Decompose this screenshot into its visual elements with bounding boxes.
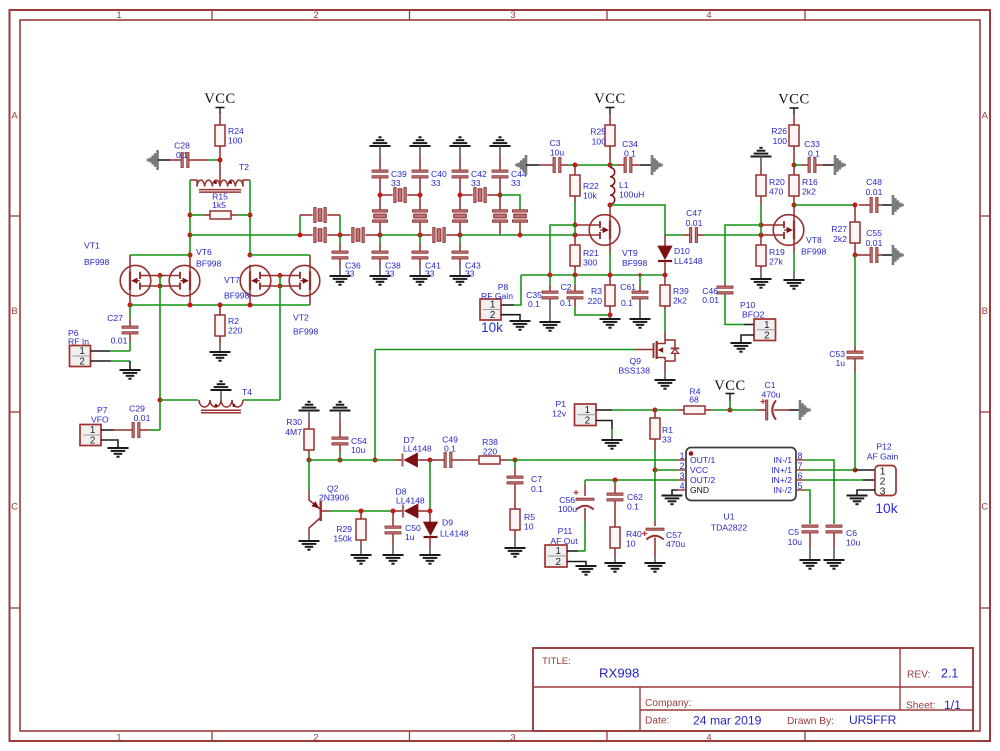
wire (418, 459, 431, 461)
ground (370, 275, 391, 277)
wire (129, 255, 131, 265)
wire (219, 344, 221, 352)
wire (130, 254, 190, 256)
svg-text:P7: P7 (97, 405, 108, 415)
wire (514, 275, 521, 305)
ground (600, 318, 621, 320)
wire (507, 459, 515, 461)
wire (339, 266, 341, 276)
svg-text:C1: C1 (765, 380, 776, 390)
svg-text:BF998: BF998 (84, 257, 110, 267)
wire (501, 304, 514, 306)
svg-text:R30: R30 (286, 417, 302, 427)
wire (654, 470, 656, 521)
wire (308, 411, 310, 421)
wire (878, 204, 882, 206)
wire (664, 261, 666, 275)
wire (380, 234, 420, 236)
wire (609, 146, 611, 161)
wire (190, 214, 204, 216)
resistor R15 (210, 211, 231, 219)
wire (805, 479, 864, 481)
ground (156, 150, 159, 170)
wire (760, 166, 762, 175)
wire (459, 178, 461, 195)
wire (793, 161, 795, 165)
resistor R24 (215, 125, 225, 146)
wire (419, 266, 421, 276)
svg-text:10: 10 (524, 522, 534, 532)
junction (188, 303, 193, 308)
resistor R30 (304, 429, 314, 450)
svg-text:LL4148: LL4148 (396, 496, 425, 506)
wire (878, 254, 882, 256)
junction (373, 458, 378, 463)
wire (260, 285, 300, 287)
svg-text:C33: C33 (804, 139, 820, 149)
wire (279, 276, 281, 401)
wire (459, 156, 461, 170)
resistor R38 (479, 456, 500, 464)
svg-text:C: C (981, 502, 988, 513)
ground (645, 562, 666, 564)
wire (129, 296, 131, 305)
wire (309, 490, 320, 509)
transistor VT2 (289, 265, 320, 296)
junction (608, 313, 613, 318)
wire (499, 195, 501, 210)
wire (419, 146, 421, 156)
svg-text:BF998: BF998 (801, 247, 827, 257)
crystal filter element (474, 188, 476, 203)
wire (129, 319, 131, 327)
ground (420, 554, 441, 556)
svg-text:B: B (11, 306, 17, 317)
wire (500, 459, 507, 461)
svg-text:150k: 150k (333, 534, 352, 544)
svg-text:12v: 12v (552, 409, 567, 419)
wire (793, 253, 795, 272)
svg-text:Date:: Date: (645, 716, 669, 727)
svg-text:2k2: 2k2 (802, 187, 816, 197)
junction (518, 233, 523, 238)
svg-text:BFO2: BFO2 (742, 310, 765, 320)
wire (855, 254, 870, 256)
ground (892, 245, 895, 265)
junction (513, 458, 518, 463)
wire (392, 546, 394, 555)
ground (525, 155, 528, 175)
capacitor C28 (181, 153, 183, 168)
capacitor C5 (802, 525, 818, 527)
wire (459, 259, 461, 266)
svg-text:C48: C48 (866, 177, 882, 187)
svg-text:33: 33 (511, 178, 521, 188)
wire (392, 511, 394, 526)
transistor VT8 (773, 215, 804, 246)
ground (655, 379, 676, 381)
junction (458, 193, 463, 198)
junction (188, 233, 193, 238)
crystal filter element (373, 210, 388, 212)
wire (150, 429, 160, 431)
wire (725, 294, 744, 325)
junction (853, 203, 858, 208)
wire (419, 156, 421, 170)
wire (308, 450, 310, 454)
svg-text:C6: C6 (846, 528, 857, 538)
svg-text:220: 220 (228, 326, 243, 336)
wire (360, 546, 362, 555)
svg-text:10k: 10k (583, 191, 598, 201)
svg-text:33: 33 (431, 178, 441, 188)
svg-text:0.01: 0.01 (866, 238, 883, 248)
wire (140, 285, 180, 287)
svg-text:R24: R24 (228, 126, 244, 136)
wire (639, 299, 641, 319)
svg-text:2k2: 2k2 (673, 296, 687, 306)
wire (793, 165, 795, 175)
wire (374, 350, 376, 461)
wire (654, 439, 656, 450)
svg-text:0.1: 0.1 (627, 502, 639, 512)
svg-text:470u: 470u (761, 390, 780, 400)
svg-text:2N3906: 2N3906 (319, 493, 349, 503)
svg-text:10u: 10u (846, 538, 861, 548)
wire (339, 215, 341, 235)
wire (574, 271, 576, 275)
ground (510, 320, 531, 322)
wire (793, 201, 795, 205)
wire (774, 409, 789, 411)
ground (299, 410, 320, 412)
svg-text:C: C (11, 502, 18, 513)
wire (567, 562, 586, 567)
wire (609, 246, 611, 253)
wire (574, 235, 576, 245)
wire (789, 409, 800, 411)
capacitor C38 (372, 251, 388, 253)
svg-text:P10: P10 (740, 300, 756, 310)
ground (410, 275, 431, 277)
wire (339, 445, 341, 452)
capacitor C7 (507, 476, 523, 478)
junction (608, 273, 613, 278)
svg-text:R22: R22 (583, 181, 599, 191)
svg-text:R16: R16 (802, 177, 818, 187)
svg-text:Company:: Company: (645, 698, 691, 709)
svg-text:68: 68 (689, 395, 699, 405)
svg-text:C47: C47 (686, 208, 702, 218)
connector P1 (575, 404, 597, 426)
connector P12 (875, 466, 896, 496)
svg-text:0.1: 0.1 (531, 484, 543, 494)
junction (248, 213, 253, 218)
ground (892, 195, 895, 215)
svg-text:BF998: BF998 (196, 259, 222, 269)
ground (784, 279, 805, 281)
transistor Q9 (653, 343, 655, 358)
svg-text:0.1: 0.1 (560, 298, 572, 308)
svg-text:2: 2 (313, 10, 318, 21)
wire (339, 452, 341, 460)
junction (638, 273, 642, 277)
wire (459, 222, 461, 235)
svg-text:C27: C27 (107, 313, 123, 323)
svg-text:220: 220 (483, 447, 498, 457)
wire (330, 510, 393, 512)
capacitor C62 (607, 493, 623, 495)
wire (610, 205, 665, 235)
wire (429, 537, 431, 546)
svg-text:R1: R1 (662, 425, 673, 435)
wire (760, 196, 762, 203)
wire (308, 460, 310, 490)
svg-text:10k: 10k (481, 320, 503, 335)
junction (608, 203, 613, 208)
svg-text:R29: R29 (336, 524, 352, 534)
svg-text:IN-/2: IN-/2 (773, 485, 792, 495)
crystal filter element (513, 210, 528, 212)
junction (608, 163, 613, 168)
wire (567, 550, 578, 552)
capacitor C53 (847, 351, 863, 353)
wire (549, 299, 551, 322)
wire (520, 234, 575, 236)
svg-text:TITLE:: TITLE: (542, 656, 571, 667)
wire (208, 159, 220, 161)
capacitor C57 (646, 528, 664, 530)
crystal filter element (413, 210, 428, 212)
wire (460, 234, 520, 236)
wire (308, 420, 310, 429)
transistor VT9 (589, 215, 620, 246)
wire (379, 195, 381, 210)
resistor R4 (684, 406, 705, 414)
wire (419, 178, 421, 195)
ground (602, 439, 623, 441)
wire (585, 479, 678, 481)
svg-text:UR5FFR: UR5FFR (849, 713, 897, 727)
svg-text:RF In: RF In (68, 337, 89, 347)
ground (211, 389, 232, 391)
wire (664, 275, 666, 285)
wire (614, 501, 616, 527)
wire (611, 429, 613, 435)
wire (614, 485, 616, 495)
svg-text:LL4148: LL4148 (403, 444, 432, 454)
IC U1 TDA2822 (686, 448, 796, 501)
wire (309, 255, 311, 265)
wire (584, 485, 586, 497)
svg-text:10u: 10u (351, 445, 366, 455)
svg-text:1u: 1u (405, 532, 415, 542)
junction (792, 203, 797, 208)
wire (614, 556, 616, 563)
junction (498, 193, 503, 198)
ground (847, 495, 868, 497)
wire (204, 214, 210, 216)
wire (854, 346, 856, 351)
connector P7 (80, 425, 101, 446)
ground (450, 145, 471, 147)
frame ruler ticks (211, 10, 213, 20)
capacitor C49 (444, 453, 446, 468)
wire (612, 409, 655, 411)
wire (499, 178, 501, 195)
wire (683, 234, 690, 236)
svg-text:10: 10 (626, 539, 636, 549)
junction (653, 408, 658, 413)
svg-text:3: 3 (510, 10, 515, 21)
wire (360, 511, 362, 519)
wire (609, 315, 611, 319)
wire (396, 459, 402, 461)
junction (573, 233, 578, 238)
junction (188, 213, 193, 218)
diode D8 (402, 505, 404, 518)
wire (760, 225, 762, 235)
capacitor C54 (332, 437, 348, 439)
svg-text:2: 2 (680, 461, 685, 471)
ground (751, 156, 772, 158)
svg-text:Q9: Q9 (630, 356, 642, 366)
capacitor C48 (870, 198, 872, 213)
svg-text:A: A (982, 111, 989, 122)
wire (91, 360, 112, 362)
wire (243, 399, 280, 401)
svg-text:C62: C62 (627, 492, 643, 502)
junction (663, 273, 668, 278)
svg-text:P12: P12 (876, 442, 892, 452)
capacitor C56 (576, 498, 594, 500)
wire (760, 203, 762, 225)
wire (697, 234, 704, 236)
junction (298, 233, 303, 238)
wire (514, 469, 516, 477)
svg-text:0.1: 0.1 (444, 444, 456, 454)
wire (129, 334, 131, 342)
capacitor C39 (372, 170, 388, 172)
wire (114, 429, 132, 431)
crystal filter element (314, 208, 316, 223)
wire (375, 349, 636, 351)
ground (799, 400, 802, 420)
transformer T4 (199, 400, 243, 407)
svg-text:1: 1 (490, 300, 495, 311)
resistor R29 (356, 519, 366, 540)
wire (300, 214, 313, 216)
wire (140, 275, 180, 277)
svg-text:D10: D10 (674, 246, 690, 256)
wire (379, 266, 381, 276)
wire (584, 480, 586, 485)
svg-text:B: B (982, 306, 988, 317)
capacitor C61 (632, 291, 648, 293)
wire (857, 490, 875, 496)
svg-text:R2: R2 (228, 316, 239, 326)
capacitor C2 (567, 291, 583, 293)
wire (664, 331, 666, 340)
ground (834, 155, 837, 175)
crystal filter element (453, 210, 468, 212)
wire (664, 235, 666, 246)
svg-text:C61: C61 (620, 282, 636, 292)
ground (410, 145, 431, 147)
svg-text:2.1: 2.1 (941, 667, 958, 681)
svg-text:33: 33 (391, 178, 401, 188)
wire (654, 538, 656, 557)
resistor R2 (215, 315, 225, 336)
svg-text:VT6: VT6 (196, 247, 212, 257)
wire (741, 335, 754, 343)
svg-text:0.1: 0.1 (621, 298, 633, 308)
wire (499, 222, 501, 235)
transistor VT6 (169, 265, 200, 296)
wire (189, 159, 208, 161)
wire (854, 373, 856, 470)
wire (882, 204, 893, 206)
wire (379, 244, 381, 251)
wire (704, 234, 761, 236)
wire (584, 521, 586, 551)
wire (140, 429, 150, 431)
wire (639, 285, 641, 292)
wire (664, 361, 666, 371)
wire (360, 540, 362, 546)
svg-text:0.01: 0.01 (866, 187, 883, 197)
wire (514, 530, 516, 538)
wire (574, 165, 576, 175)
capacitor C55 (870, 248, 872, 263)
wire (618, 164, 624, 166)
resistor R21 (570, 245, 580, 266)
wire (459, 235, 461, 244)
svg-text:VT7: VT7 (224, 275, 240, 285)
junction (613, 478, 618, 483)
inductor L1 (610, 167, 615, 204)
wire (419, 244, 421, 251)
svg-text:P1: P1 (555, 399, 566, 409)
svg-text:R40: R40 (626, 529, 642, 539)
svg-text:VCC: VCC (204, 91, 236, 107)
ground (450, 275, 471, 277)
junction (158, 284, 163, 289)
svg-text:0.1: 0.1 (808, 149, 820, 159)
svg-text:2: 2 (585, 416, 590, 427)
connector P10 (754, 319, 776, 341)
svg-text:R39: R39 (673, 286, 689, 296)
wire (309, 518, 321, 536)
wire (549, 275, 551, 285)
wire (610, 164, 618, 166)
svg-text:BSS138: BSS138 (618, 366, 650, 376)
resistor R27 (850, 222, 860, 243)
wire (760, 271, 762, 279)
svg-text:0.01: 0.01 (134, 413, 151, 423)
resistor R26 (789, 125, 799, 146)
svg-text:0.1: 0.1 (176, 150, 188, 160)
wire (654, 450, 656, 470)
wire (249, 180, 251, 255)
wire (322, 510, 330, 512)
wire (189, 255, 191, 265)
junction (548, 273, 553, 278)
wire (393, 510, 403, 512)
wire (101, 429, 114, 431)
svg-text:U1: U1 (724, 512, 735, 522)
junction (391, 509, 396, 514)
